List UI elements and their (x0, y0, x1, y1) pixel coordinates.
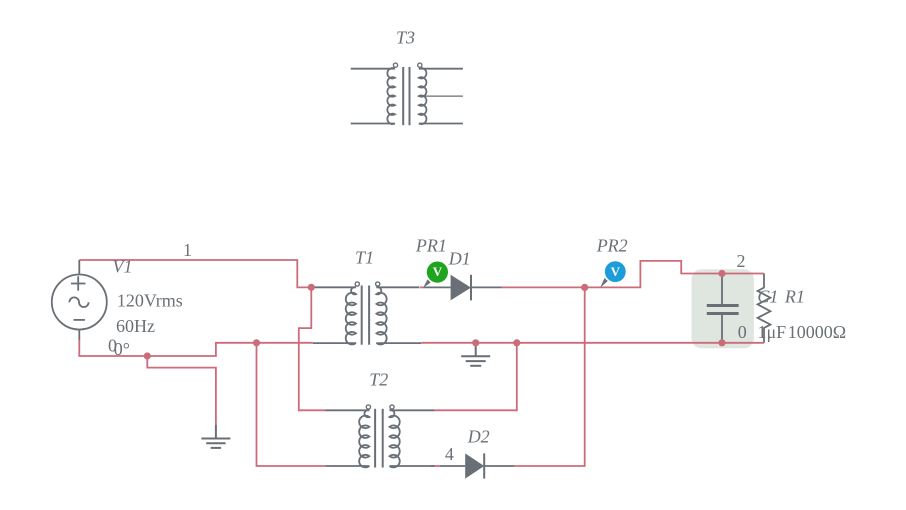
wire net1 branch T1 top junction to T2 primary top (299, 287, 326, 410)
AC source V1 (52, 260, 107, 340)
diode D1 (425, 275, 502, 301)
svg-text:V: V (611, 264, 621, 279)
resistor R1 (758, 274, 771, 343)
junction dot C1 top (718, 270, 725, 277)
label PR1 (415, 236, 447, 256)
label T1 (355, 247, 374, 267)
net label 2 (737, 251, 746, 271)
wire net2 junction to C1/R1 top (585, 261, 764, 288)
net label 0 at V1 (108, 336, 117, 356)
svg-text:0: 0 (108, 336, 117, 356)
svg-text:2: 2 (737, 251, 746, 271)
svg-text:120Vrms: 120Vrms (117, 291, 183, 311)
label R1 (784, 286, 805, 306)
svg-text:PR1: PR1 (415, 236, 447, 256)
label D2 (467, 426, 490, 446)
net label 1 (183, 240, 192, 260)
wire net4 junction down to D2 cathode (515, 287, 585, 466)
svg-text:4: 4 (445, 444, 454, 464)
svg-text:R1: R1 (784, 286, 805, 306)
junction dot T1 primary top (308, 284, 315, 291)
transformer T2 (326, 405, 435, 468)
wire D1 cathode to node 2 junction (502, 286, 585, 288)
capacitor C1 (707, 274, 739, 343)
junction dot T2 secondary branch (513, 339, 520, 346)
label D1 (448, 249, 471, 269)
wire stub at D1 anode probe point (420, 286, 425, 288)
svg-text:10000Ω: 10000Ω (788, 322, 846, 342)
wire stub at D2 anode (431, 465, 440, 467)
svg-text:1: 1 (183, 240, 192, 260)
svg-text:V: V (433, 264, 443, 279)
ground at net0 rail (461, 343, 490, 366)
wire net0 rail right of T1 to C1/R1 bottom (421, 342, 764, 344)
junction dot ground net0 (472, 339, 479, 346)
wire net0 branch to T2 secondary bottom (257, 343, 326, 466)
svg-text:60Hz: 60Hz (116, 316, 155, 336)
svg-text:D2: D2 (467, 426, 490, 446)
svg-text:V1: V1 (113, 257, 133, 277)
svg-text:PR2: PR2 (596, 236, 628, 256)
value 0 degrees (114, 339, 130, 359)
svg-text:0: 0 (738, 322, 747, 342)
label T2 (369, 370, 388, 390)
value 1uF (758, 322, 787, 342)
wire net0 branch to T2 secondary top (435, 343, 517, 411)
diode D2 (440, 453, 515, 478)
svg-text:T2: T2 (369, 370, 388, 390)
net label 0 at C1 (738, 322, 747, 342)
wire net1 V1+ to T1 primary top (79, 260, 311, 287)
transformer T1 (313, 282, 421, 345)
wire V1- to net0 rail (79, 339, 313, 356)
label V1 (113, 257, 133, 277)
svg-text:T3: T3 (396, 28, 415, 48)
junction dot C1 bottom (718, 339, 725, 346)
probe PR1 (423, 262, 448, 288)
net label 4 (445, 444, 454, 464)
label T3 (396, 28, 415, 48)
value 60Hz (116, 316, 155, 336)
junction dot V1 ground branch (144, 352, 151, 359)
value 120Vrms (117, 291, 183, 311)
value 10000 Ohm (788, 322, 846, 342)
label PR2 (596, 236, 628, 256)
transformer T3 (351, 63, 463, 125)
label C1 (757, 286, 778, 306)
svg-text:T1: T1 (355, 247, 374, 267)
svg-text:D1: D1 (448, 249, 471, 269)
junction dot net0 T2 branch (253, 339, 260, 346)
wire branch to left ground (147, 356, 216, 425)
svg-text:1μF: 1μF (758, 322, 787, 342)
ground at V1 (201, 425, 230, 448)
selection highlight box around C1 (692, 269, 754, 348)
junction dot node 2 (581, 284, 588, 291)
probe PR2 (600, 261, 625, 287)
